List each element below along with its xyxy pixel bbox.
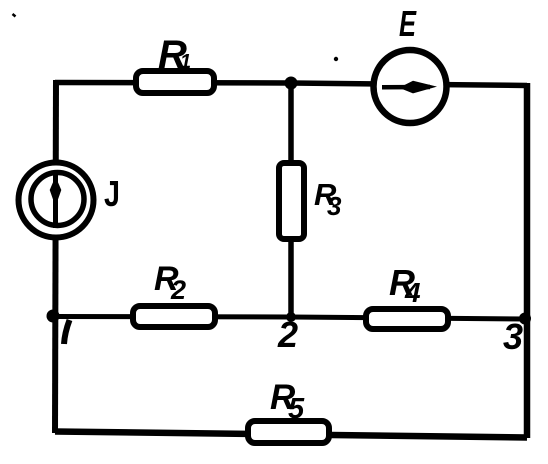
ink speck near E bbox=[334, 57, 338, 61]
svg-text:3: 3 bbox=[503, 316, 523, 357]
resistor R5 bbox=[248, 421, 329, 443]
voltage source E (circle with right arrow) bbox=[374, 50, 447, 123]
svg-text:J: J bbox=[104, 173, 120, 214]
label R1 bbox=[158, 33, 191, 77]
ink speck top-left bbox=[13, 14, 16, 17]
svg-text:2: 2 bbox=[277, 314, 298, 355]
wire middle horizontal (node1-node2-node3) bbox=[53, 317, 527, 320]
wire R3 branch vertical bbox=[288, 83, 294, 317]
label J bbox=[104, 173, 120, 214]
junction node (top, R1/R3/E) bbox=[285, 77, 298, 90]
label R2 bbox=[154, 260, 186, 305]
label R4 bbox=[389, 262, 421, 308]
svg-text:3: 3 bbox=[327, 191, 342, 221]
resistor R3 bbox=[279, 163, 304, 239]
wire right vertical bbox=[524, 83, 531, 438]
wire bottom bbox=[55, 432, 527, 438]
label node 3 bbox=[503, 316, 523, 357]
resistor R4 bbox=[366, 309, 448, 329]
label R5 bbox=[270, 378, 305, 425]
node 1 junction dot bbox=[47, 310, 60, 323]
label node 2 bbox=[277, 314, 298, 355]
wire top (node between R1 and E) bbox=[55, 83, 527, 86]
wire left vertical (through J) bbox=[55, 80, 56, 433]
svg-text:4: 4 bbox=[404, 277, 421, 308]
current source J (double circle with up arrow) bbox=[19, 163, 94, 238]
node 3 junction dot bbox=[519, 313, 531, 325]
svg-text:5: 5 bbox=[288, 393, 305, 425]
svg-text:E: E bbox=[399, 3, 417, 44]
label R3 bbox=[314, 177, 342, 221]
label E bbox=[399, 3, 417, 44]
resistor R1 bbox=[136, 71, 214, 93]
node 2 junction dot bbox=[286, 312, 296, 322]
resistor R2 bbox=[133, 306, 215, 327]
svg-text:1: 1 bbox=[180, 51, 191, 73]
svg-text:2: 2 bbox=[170, 275, 186, 305]
label node 1 bbox=[64, 320, 70, 344]
